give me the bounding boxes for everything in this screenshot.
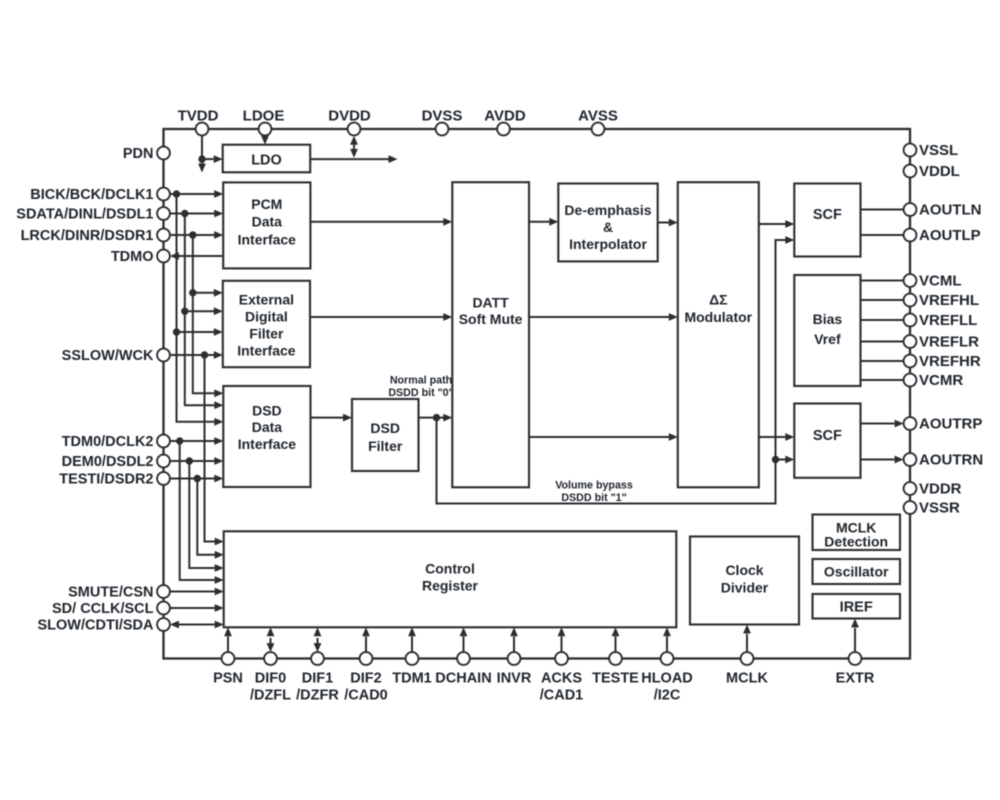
svg-text:LDO: LDO	[251, 152, 282, 168]
svg-text:Modulator: Modulator	[684, 309, 752, 325]
svg-text:TDM1: TDM1	[392, 670, 431, 686]
svg-text:AVDD: AVDD	[484, 108, 526, 125]
svg-text:Oscillator: Oscillator	[824, 564, 889, 580]
junction dot SDATA tap to External	[181, 308, 188, 315]
svg-text:VSSL: VSSL	[919, 142, 958, 159]
wire DEM0 bus down to Control Register	[189, 461, 223, 572]
svg-text:AVSS: AVSS	[578, 108, 618, 125]
svg-text:TDM0/DCLK2: TDM0/DCLK2	[62, 434, 154, 450]
block De-emphasis & Interpolator	[558, 184, 657, 262]
pin TDM0/DCLK2	[62, 434, 170, 450]
block LDO	[223, 145, 311, 173]
svg-text:VCML: VCML	[919, 273, 962, 290]
junction dot LRCK tap to External	[189, 289, 196, 296]
pin SMUTE/CSN	[68, 585, 170, 601]
wire Bias Vref to VREFLR	[861, 341, 904, 343]
pin HLOAD	[641, 652, 693, 703]
svg-text:Vref: Vref	[814, 331, 841, 347]
junction dot BICK bus	[173, 190, 180, 197]
svg-text:VDDL: VDDL	[919, 163, 960, 180]
wire TVDD to LDO input	[202, 155, 223, 163]
svg-text:PCM: PCM	[251, 196, 282, 212]
pin DVSS	[422, 108, 463, 136]
wire PSN into Control Register	[224, 627, 232, 652]
wire Modulator to right SCF	[759, 433, 795, 441]
svg-text:DVDD: DVDD	[328, 108, 371, 125]
block PCM Data Interface	[223, 182, 310, 268]
svg-text:DATT: DATT	[472, 294, 509, 310]
wire LDO output	[310, 155, 397, 163]
wire LRCK bus down to DSD	[193, 235, 224, 397]
svg-text:INVR: INVR	[497, 670, 532, 686]
wire TDMO output from PCM	[170, 252, 223, 260]
wire DVDD bidirectional link	[350, 136, 358, 158]
svg-text:AOUTLP: AOUTLP	[919, 227, 981, 244]
pin TVDD	[178, 108, 219, 136]
svg-text:ACKS: ACKS	[541, 670, 582, 686]
svg-text:TESTE: TESTE	[592, 670, 639, 686]
svg-text:PSN: PSN	[213, 670, 243, 686]
svg-text:DSDD bit "1": DSDD bit "1"	[561, 492, 626, 504]
pin DIF0	[250, 652, 291, 703]
wire BICK bus down to DSD	[177, 194, 224, 426]
svg-text:AOUTRN: AOUTRN	[919, 452, 983, 469]
svg-text:SDATA/DINL/DSDL1: SDATA/DINL/DSDL1	[16, 207, 153, 223]
pin VREFHL	[904, 292, 979, 309]
junction dot volume bypass tap	[433, 414, 440, 421]
junction dot bypass to right SCF	[772, 456, 779, 463]
wire SDATA to PCM Data Interface	[170, 210, 223, 218]
wire LRCK tap into External	[193, 289, 223, 297]
block External Digital Filter Interface	[223, 281, 310, 367]
label Volume bypass DSDD bit 1	[555, 480, 633, 505]
wire left SCF to AOUTLP	[861, 234, 904, 236]
svg-text:DIF0: DIF0	[255, 670, 286, 686]
pin AOUTRP	[904, 416, 983, 433]
wire PCM to DATT	[310, 218, 452, 226]
wire right SCF to AOUTRN	[861, 456, 904, 464]
wire TESTI into DSD	[170, 475, 223, 483]
wire External to DATT	[310, 313, 452, 321]
pin PSN	[213, 652, 243, 686]
junction dot TVDD to LDO	[198, 155, 205, 162]
svg-text:VREFHL: VREFHL	[919, 292, 979, 309]
wire BICK tap into External	[177, 328, 223, 336]
svg-text:VREFHR: VREFHR	[919, 353, 981, 370]
block IREF	[813, 594, 901, 619]
svg-text:BICK/BCK/DCLK1: BICK/BCK/DCLK1	[30, 187, 153, 203]
wire HLOAD into Control Register	[663, 627, 671, 652]
block Control Register	[224, 531, 677, 627]
wire Bias Vref to VREFHR	[861, 360, 904, 362]
svg-text:EXTR: EXTR	[836, 670, 875, 686]
block Delta-Sigma Modulator	[678, 182, 759, 487]
pin DIF2	[344, 652, 388, 703]
pin INVR	[497, 652, 532, 686]
pin LDOE	[243, 108, 285, 136]
pin VSSR	[904, 500, 960, 517]
pin AVSS	[578, 108, 618, 136]
svg-text:Clock: Clock	[725, 562, 763, 578]
svg-text:VREFLL: VREFLL	[919, 312, 977, 329]
block Bias Vref	[794, 275, 860, 386]
svg-text:VCMR: VCMR	[919, 372, 963, 389]
block DSD Filter	[352, 399, 419, 471]
wire DATT to De-emphasis	[529, 218, 558, 226]
wire right SCF to AOUTRP	[861, 420, 904, 428]
wire bypass into right SCF	[776, 456, 795, 464]
svg-text:TDMO: TDMO	[111, 249, 154, 265]
junction dot BICK tap to External	[173, 328, 180, 335]
wire DCHAIN into Control Register	[460, 627, 468, 652]
pin ACKS	[540, 652, 584, 703]
svg-text:SMUTE/CSN: SMUTE/CSN	[68, 585, 153, 601]
svg-text:Data: Data	[252, 419, 283, 435]
svg-text:IREF: IREF	[840, 600, 873, 616]
pin SDATA/DINL/DSDL1	[16, 207, 170, 223]
svg-text:/I2C: /I2C	[654, 688, 681, 704]
wire MCLK into Clock Divider	[743, 625, 751, 653]
wire DEM0 into DSD	[170, 457, 223, 465]
wire DATT to Modulator middle	[529, 313, 678, 321]
wire SDATA tap into External	[185, 307, 223, 315]
svg-text:External: External	[239, 291, 294, 307]
junction dot TESTI bus	[194, 475, 201, 482]
pin VSSL	[904, 142, 959, 159]
pin AOUTLN	[904, 202, 982, 219]
svg-text:Control: Control	[425, 560, 475, 576]
svg-text:TVDD: TVDD	[178, 108, 219, 125]
svg-text:Filter: Filter	[249, 325, 284, 341]
pin MCLK	[726, 652, 768, 686]
wire DSD to DSD Filter	[311, 414, 353, 422]
junction dot TDM0 bus	[176, 437, 183, 444]
pin AOUTLP	[904, 227, 981, 244]
wire Bias Vref to VCMR	[861, 379, 904, 381]
svg-text:Divider: Divider	[721, 579, 769, 595]
svg-text:AOUTLN: AOUTLN	[919, 202, 982, 219]
wire volume bypass path	[437, 236, 795, 503]
wire Bias Vref to VCML	[861, 280, 904, 282]
wire TESTE into Control Register	[612, 627, 620, 652]
pin VDDR	[904, 481, 962, 498]
svg-text:LRCK/DINR/DSDR1: LRCK/DINR/DSDR1	[21, 228, 154, 244]
wire BICK to PCM Data Interface	[170, 190, 223, 198]
svg-text:Register: Register	[422, 577, 479, 593]
pin DEM0/DSDL2	[62, 454, 170, 470]
svg-text:DSD: DSD	[370, 420, 400, 436]
block Clock Divider	[690, 537, 799, 625]
pin VREFHR	[904, 353, 981, 370]
pin VCML	[904, 273, 962, 290]
pin AVDD	[484, 108, 526, 136]
wire SSLOW bus down to Control Register	[205, 355, 224, 545]
wire SDATA bus down to DSD	[185, 214, 224, 410]
wire TDM0 bus down to Control Register	[180, 441, 224, 584]
wire De-emphasis to Modulator	[658, 219, 678, 227]
pin AOUTRN	[904, 452, 984, 469]
svg-text:&: &	[603, 219, 613, 235]
wire SSLOW into External	[170, 351, 223, 359]
wire LDOE into LDO	[261, 135, 269, 144]
wire SMUTE into Control Register	[170, 588, 224, 596]
svg-text:DSDD bit "0": DSDD bit "0"	[388, 387, 453, 399]
pin SSLOW/WCK	[62, 348, 170, 364]
junction dot DEM0 bus	[186, 457, 193, 464]
wire INVR into Control Register	[510, 627, 518, 652]
svg-text:VREFLR: VREFLR	[919, 334, 979, 351]
svg-text:VDDR: VDDR	[919, 481, 962, 498]
wire EXTR into IREF	[851, 619, 859, 653]
block DSD Data Interface	[223, 386, 310, 487]
block Oscillator	[813, 559, 901, 584]
wire DSD Filter to DATT	[419, 414, 453, 422]
svg-text:Volume bypass: Volume bypass	[555, 480, 633, 492]
wire DIF1 bidirectional	[314, 627, 322, 652]
svg-text:SCF: SCF	[813, 207, 842, 223]
svg-text:DIF2: DIF2	[350, 670, 381, 686]
wire DIF0 bidirectional	[267, 627, 275, 652]
pin VREFLR	[904, 334, 980, 351]
wire left SCF to AOUTLN	[861, 209, 904, 211]
junction dot SSLOW bus	[201, 351, 208, 358]
svg-text:Digital: Digital	[245, 308, 288, 324]
svg-text:/CAD0: /CAD0	[344, 688, 388, 704]
wire Bias Vref to VREFHL	[861, 299, 904, 301]
wire LRCK to PCM Data Interface	[170, 231, 223, 239]
svg-text:Interface: Interface	[238, 232, 297, 248]
svg-text:SCF: SCF	[813, 428, 842, 444]
svg-text:SSLOW/WCK: SSLOW/WCK	[62, 348, 154, 364]
junction dot SDATA bus	[181, 210, 188, 217]
pin TDMO	[111, 249, 170, 265]
pin TESTI/DSDR2	[59, 472, 170, 488]
pin BICK/BCK/DCLK1	[30, 187, 170, 203]
svg-text:LDOE: LDOE	[243, 108, 285, 125]
block SCF left channel	[794, 184, 860, 257]
pin VREFLL	[904, 312, 978, 329]
svg-text:VSSR: VSSR	[919, 500, 960, 517]
pin TESTE	[592, 652, 639, 686]
svg-text:TESTI/DSDR2: TESTI/DSDR2	[59, 472, 153, 488]
svg-text:DEM0/DSDL2: DEM0/DSDL2	[62, 454, 154, 470]
wire TESTI bus down to Control Register	[197, 479, 223, 559]
svg-text:PDN: PDN	[123, 146, 154, 162]
svg-text:AOUTRP: AOUTRP	[919, 416, 982, 433]
wire SD CCLK SCL into Control Register	[170, 604, 224, 612]
svg-text:Data: Data	[252, 214, 283, 230]
pin LRCK/DINR/DSDR1	[21, 228, 170, 244]
svg-text:De-emphasis: De-emphasis	[564, 202, 651, 218]
svg-text:Soft Mute: Soft Mute	[459, 311, 523, 327]
svg-text:/DZFL: /DZFL	[250, 688, 291, 704]
label Normal path DSDD bit 0	[388, 375, 453, 399]
wire Modulator to left SCF	[759, 220, 795, 228]
junction dot LRCK bus	[189, 231, 196, 238]
svg-text:Bias: Bias	[813, 311, 843, 327]
svg-text:DSD: DSD	[252, 402, 282, 418]
pin DIF1	[296, 652, 339, 703]
wire TDM1 into Control Register	[408, 627, 416, 652]
pin SD/ CCLK/SCL	[52, 601, 170, 617]
pin TDM1	[392, 652, 431, 686]
wire ACKS into Control Register	[558, 627, 566, 652]
block DATT Soft Mute	[452, 182, 529, 487]
svg-text:SLOW/CDTI/SDA: SLOW/CDTI/SDA	[38, 618, 155, 634]
wire SLOW CDTI SDA bidirectional	[170, 621, 224, 629]
wire TVDD supply drop	[198, 135, 206, 172]
wire TDM0 into DSD	[170, 437, 223, 445]
pin DVDD	[328, 108, 371, 136]
wire DIF2 into Control Register	[362, 627, 370, 652]
svg-text:MCLK: MCLK	[726, 670, 768, 686]
pin SLOW/CDTI/SDA	[38, 618, 170, 634]
svg-text:Interpolator: Interpolator	[569, 236, 647, 252]
block MCLK Detection	[813, 515, 901, 551]
svg-text:/CAD1: /CAD1	[540, 688, 584, 704]
wire DATT to Modulator bottom	[529, 433, 678, 441]
svg-text:SD/ CCLK/SCL: SD/ CCLK/SCL	[52, 601, 154, 617]
svg-text:HLOAD: HLOAD	[641, 670, 693, 686]
svg-text:DCHAIN: DCHAIN	[435, 670, 491, 686]
pin VDDL	[904, 163, 960, 180]
svg-text:Filter: Filter	[368, 438, 403, 454]
pin DCHAIN	[435, 652, 491, 686]
pin EXTR	[836, 652, 875, 686]
svg-text:Normal path: Normal path	[390, 375, 452, 387]
svg-text:/DZFR: /DZFR	[296, 688, 339, 704]
svg-text:Interface: Interface	[237, 342, 296, 358]
svg-text:Interface: Interface	[238, 436, 297, 452]
pin VCMR	[904, 372, 964, 389]
svg-text:Detection: Detection	[824, 533, 888, 549]
svg-text:ΔΣ: ΔΣ	[709, 291, 727, 307]
block SCF right channel	[794, 404, 860, 478]
svg-text:DIF1: DIF1	[302, 670, 333, 686]
svg-text:DVSS: DVSS	[422, 108, 463, 125]
pin PDN	[123, 146, 170, 162]
wire Bias Vref to VREFLL	[861, 319, 904, 321]
chip outline border	[164, 129, 911, 659]
